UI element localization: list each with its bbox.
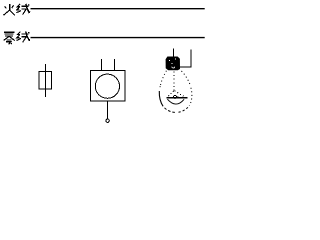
lamp inner stem press arc	[167, 99, 184, 104]
wire: switch right top lead	[113, 59, 115, 71]
wire: lamp right lead (L-shaped)	[180, 49, 192, 67]
switch pull-cord knob	[106, 119, 109, 122]
fuse F1 (保险丝) body	[39, 71, 51, 89]
wire: fuse bottom lead	[45, 89, 47, 97]
lamp glass stem (dotted)	[173, 72, 175, 91]
wire: switch left top lead	[101, 59, 103, 71]
wire: neutral wire (零线) horizontal line	[31, 37, 205, 39]
wire: fuse top lead	[45, 64, 47, 72]
lamp filament	[166, 95, 187, 98]
lamp filament support wires (dotted V)	[167, 91, 184, 97]
wire: lamp left lead	[173, 49, 175, 57]
label 火线 (live wire)	[3, 4, 29, 16]
lamp glass envelope (dotted outline)	[159, 71, 192, 113]
label 零线 (neutral wire)	[4, 32, 30, 45]
wire: live wire (火线) horizontal line	[31, 8, 205, 10]
pull-cord switch S1 (拉线开关) body	[91, 71, 126, 102]
lamp EL1 screw base	[166, 57, 180, 71]
switch pull cord	[107, 101, 109, 119]
